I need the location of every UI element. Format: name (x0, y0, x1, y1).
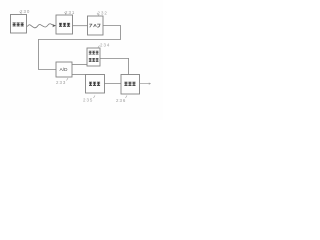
svg-text:232: 232 (98, 10, 108, 15)
svg-text:234: 234 (100, 42, 110, 47)
svg-text:230: 230 (20, 9, 30, 14)
svg-text:236: 236 (116, 98, 126, 103)
svg-text:235: 235 (83, 97, 93, 102)
svg-text:A/D: A/D (60, 67, 69, 73)
svg-text:233: 233 (56, 80, 66, 85)
svg-text:231: 231 (65, 10, 75, 15)
